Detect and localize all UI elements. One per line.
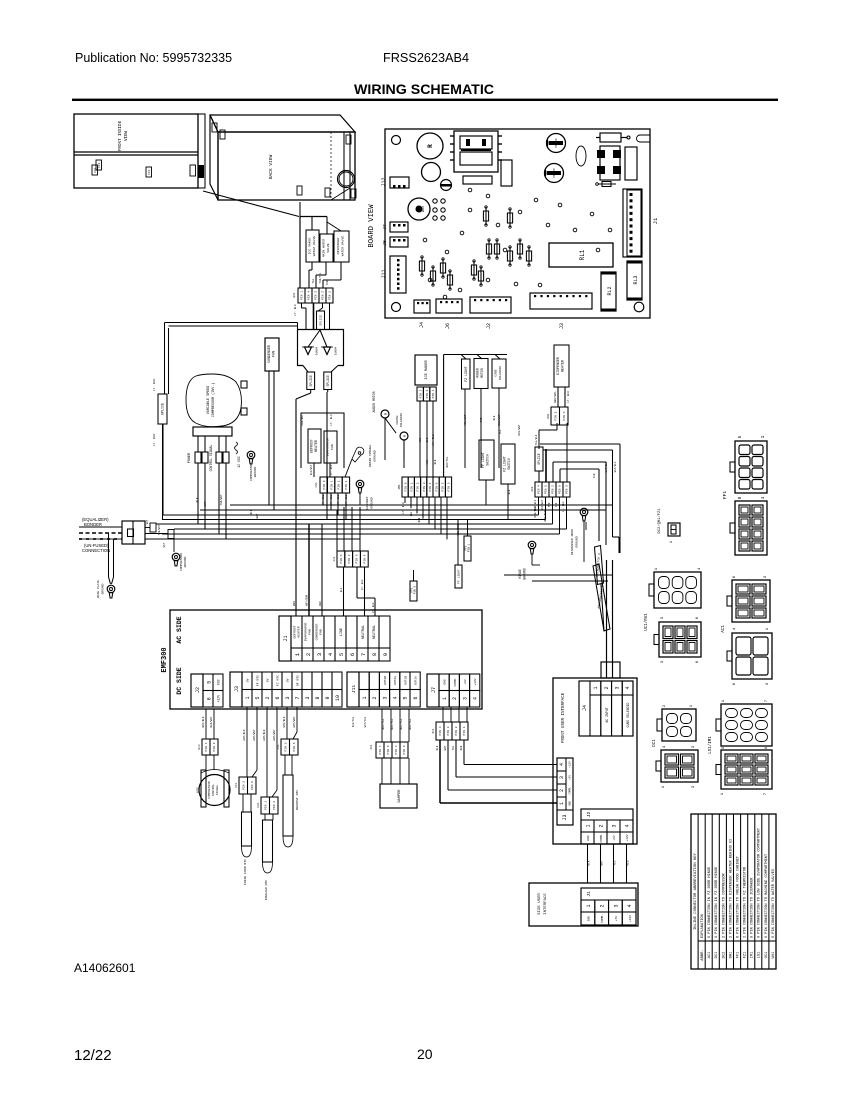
svg-text:BOARD VIEW: BOARD VIEW xyxy=(368,204,376,248)
svg-text:PIN 2: PIN 2 xyxy=(417,482,420,491)
svg-text:LS1: LS1 xyxy=(315,482,318,487)
svg-text:HEATER: HEATER xyxy=(296,626,300,637)
svg-text:FF LIGHT: FF LIGHT xyxy=(481,452,485,467)
svg-text:PIN 2: PIN 2 xyxy=(242,781,245,790)
svg-text:GROUND: GROUND xyxy=(254,466,257,477)
svg-text:PIN 6: PIN 6 xyxy=(387,745,390,754)
svg-text:BASE PLATE: BASE PLATE xyxy=(97,580,100,598)
svg-text:PIN 4: PIN 4 xyxy=(364,554,367,563)
svg-text:PIN 3: PIN 3 xyxy=(423,482,426,491)
svg-text:BLK/WHT: BLK/WHT xyxy=(209,716,213,727)
svg-text:MOTOR: MOTOR xyxy=(480,368,484,378)
svg-text:RED: RED xyxy=(319,601,322,606)
svg-text:FZ1: FZ1 xyxy=(257,802,260,807)
svg-text:3: 3 xyxy=(612,824,618,827)
svg-text:+12V: +12V xyxy=(626,834,629,841)
svg-text:YEL: YEL xyxy=(312,278,315,283)
svg-text:LT. BLU: LT. BLU xyxy=(153,379,156,392)
svg-text:SPLICE: SPLICE xyxy=(162,403,166,415)
svg-text:COMPRESSOR (INV.): COMPRESSOR (INV.) xyxy=(211,383,216,418)
svg-text:J3: J3 xyxy=(559,323,565,329)
svg-text:6: 6 xyxy=(349,653,356,656)
svg-text:12/22: 12/22 xyxy=(74,1047,112,1064)
svg-text:A14062601: A14062601 xyxy=(74,961,136,975)
svg-text:PIN 3: PIN 3 xyxy=(426,389,429,398)
svg-text:WHT: WHT xyxy=(256,513,259,518)
svg-text:WHT/YEL: WHT/YEL xyxy=(408,718,412,729)
svg-text:LT. BLU: LT. BLU xyxy=(402,502,405,513)
svg-text:CONDENSER: CONDENSER xyxy=(267,345,271,363)
svg-text:LT. BLU: LT. BLU xyxy=(361,579,364,590)
svg-text:6: 6 xyxy=(413,696,419,699)
svg-text:20: 20 xyxy=(417,1046,433,1062)
svg-text:R: R xyxy=(427,144,434,148)
svg-text:IM1: IM1 xyxy=(751,951,755,959)
svg-text:MAIN WATER: MAIN WATER xyxy=(322,239,326,258)
svg-text:2 PIN CONNECTION TO DISPENSER: 2 PIN CONNECTION TO DISPENSER HEATER BEH… xyxy=(729,839,733,938)
svg-text:3: 3 xyxy=(285,696,291,699)
svg-text:DC2: DC2 xyxy=(722,951,726,959)
svg-text:LT. BLU: LT. BLU xyxy=(562,501,565,512)
svg-text:SWITCH: SWITCH xyxy=(507,458,511,470)
svg-text:BLK: BLK xyxy=(508,489,511,494)
svg-text:DC2/QH1/FZ1: DC2/QH1/FZ1 xyxy=(657,508,662,534)
svg-text:10: 10 xyxy=(335,695,341,701)
svg-text:RED/YEL: RED/YEL xyxy=(352,716,355,727)
svg-text:1: 1 xyxy=(362,696,368,699)
svg-text:INTERFACE: INTERFACE xyxy=(544,893,548,915)
svg-text:+12V: +12V xyxy=(569,761,572,768)
svg-text:OUT2B: OUT2B xyxy=(384,676,387,685)
svg-text:RED/BLK: RED/BLK xyxy=(534,499,537,510)
svg-text:J3: J3 xyxy=(234,686,240,692)
svg-text:DC1: DC1 xyxy=(715,951,719,959)
svg-text:9 PIN CONNECTION TO LOW SIDE E: 9 PIN CONNECTION TO LOW SIDE EVAPORATOR … xyxy=(758,827,762,938)
svg-text:J11: J11 xyxy=(381,269,387,278)
svg-text:PIN 1: PIN 1 xyxy=(264,801,267,810)
svg-text:FF1: FF1 xyxy=(722,491,728,499)
svg-text:4: 4 xyxy=(627,904,633,907)
svg-text:FF1: FF1 xyxy=(736,951,740,959)
svg-text:BLK: BLK xyxy=(196,497,199,502)
svg-text:LINE: LINE xyxy=(340,628,344,636)
svg-text:LT. BLU: LT. BLU xyxy=(322,494,325,505)
svg-text:WHT/YEL: WHT/YEL xyxy=(364,716,367,727)
svg-text:GROUND: GROUND xyxy=(523,568,527,580)
svg-text:3: 3 xyxy=(305,696,311,699)
svg-text:LT. BLU: LT. BLU xyxy=(345,494,348,505)
svg-text:DC1: DC1 xyxy=(653,739,657,747)
svg-text:2 PIN CONNECTION TO FZ THERMIS: 2 PIN CONNECTION TO FZ THERMISTOR xyxy=(744,866,748,938)
svg-text:FREEZER NTC: FREEZER NTC xyxy=(264,880,268,901)
svg-text:PIN 2: PIN 2 xyxy=(213,742,216,751)
svg-text:NEUTRAL: NEUTRAL xyxy=(362,625,366,639)
svg-text:BONDER: BONDER xyxy=(84,522,102,527)
svg-text:J12: J12 xyxy=(381,177,387,186)
svg-text:FRONT USER INTERFACE: FRONT USER INTERFACE xyxy=(562,692,566,743)
svg-text:DISPENSER: DISPENSER xyxy=(556,357,560,375)
svg-text:ICE MAKER: ICE MAKER xyxy=(425,359,429,379)
svg-text:FF1: FF1 xyxy=(370,744,373,749)
svg-text:OUT1B: OUT1B xyxy=(404,676,407,685)
svg-text:HINGE: HINGE xyxy=(518,569,522,579)
svg-text:G: G xyxy=(385,413,389,415)
svg-text:DISPENSER DOOR: DISPENSER DOOR xyxy=(570,529,574,555)
svg-text:PIN 6: PIN 6 xyxy=(356,554,359,563)
svg-text:PIN 1: PIN 1 xyxy=(411,482,414,491)
svg-text:PIN 4: PIN 4 xyxy=(429,482,432,491)
svg-text:PIN 2: PIN 2 xyxy=(455,726,458,735)
svg-text:SIDE USER: SIDE USER xyxy=(538,893,542,915)
svg-text:BLK: BLK xyxy=(418,517,421,522)
svg-text:WHT/YEL: WHT/YEL xyxy=(399,718,403,729)
svg-text:GND: GND xyxy=(444,679,447,685)
svg-text:BLU/WHT: BLU/WHT xyxy=(497,414,501,425)
svg-text:YEL: YEL xyxy=(426,459,429,464)
svg-text:2: 2 xyxy=(600,904,606,907)
svg-text:8: 8 xyxy=(737,496,743,499)
svg-text:PIN 5: PIN 5 xyxy=(414,585,417,594)
svg-text:NEUTRAL: NEUTRAL xyxy=(554,391,557,403)
svg-text:YEL: YEL xyxy=(614,860,617,865)
svg-text:YEL/WHT: YEL/WHT xyxy=(463,414,467,425)
svg-text:GRY/WHT: GRY/WHT xyxy=(272,729,276,740)
svg-text:FZ1: FZ1 xyxy=(744,951,748,959)
svg-text:LT. BLU: LT. BLU xyxy=(294,304,297,315)
svg-text:YEL: YEL xyxy=(410,511,413,516)
svg-text:LS1: LS1 xyxy=(277,744,280,749)
svg-text:DH1: DH1 xyxy=(729,951,733,959)
svg-text:PIN 1: PIN 1 xyxy=(338,480,341,489)
svg-text:FF NTC: FF NTC xyxy=(256,675,260,686)
svg-text:RED/WHT: RED/WHT xyxy=(541,499,544,510)
svg-text:PIN 1: PIN 1 xyxy=(348,554,351,563)
svg-text:J2: J2 xyxy=(195,687,201,693)
svg-text:PIN 3: PIN 3 xyxy=(442,482,445,491)
svg-text:PIN 4: PIN 4 xyxy=(308,291,311,300)
svg-text:6 PIN CONNECTION TO MACHINE CO: 6 PIN CONNECTION TO MACHINE COMPARTMENT xyxy=(765,853,769,938)
svg-text:FZ LIGHT: FZ LIGHT xyxy=(503,456,507,471)
svg-text:6 PIN CONNECTION IN FZ DOOR HI: 6 PIN CONNECTION IN FZ DOOR HINGE xyxy=(708,867,712,938)
svg-text:3: 3 xyxy=(316,653,323,656)
svg-text:1: 1 xyxy=(586,904,592,907)
svg-text:5: 5 xyxy=(338,653,345,656)
svg-text:LT. BLU: LT. BLU xyxy=(153,434,156,447)
svg-text:PUR: PUR xyxy=(548,502,551,507)
svg-text:WATER VALVE: WATER VALVE xyxy=(312,236,316,257)
svg-text:J1: J1 xyxy=(283,635,289,641)
svg-text:5V: 5V xyxy=(266,679,270,683)
svg-text:J1: J1 xyxy=(652,217,659,224)
svg-text:WATER VALVE: WATER VALVE xyxy=(341,236,345,257)
svg-text:TAN/WHT: TAN/WHT xyxy=(219,494,223,505)
svg-text:VSC: VSC xyxy=(217,679,221,685)
svg-text:HEATER: HEATER xyxy=(314,440,318,452)
svg-text:3: 3 xyxy=(382,696,388,699)
svg-text:DC1: DC1 xyxy=(432,728,435,733)
svg-text:BLK: BLK xyxy=(493,415,496,420)
svg-text:TAN: TAN xyxy=(326,280,329,285)
svg-text:PIN 2: PIN 2 xyxy=(273,801,276,810)
svg-text:3: 3 xyxy=(559,776,565,779)
svg-text:COMPRESSOR: COMPRESSOR xyxy=(250,463,253,481)
svg-text:BLK: BLK xyxy=(340,587,343,592)
svg-text:PIN 1: PIN 1 xyxy=(432,389,435,398)
svg-text:COMM.: COMM. xyxy=(569,786,572,794)
svg-text:BLK: BLK xyxy=(426,437,429,442)
svg-text:VIEW: VIEW xyxy=(125,130,129,141)
svg-text:PIN 2: PIN 2 xyxy=(552,485,555,494)
svg-text:TAN: TAN xyxy=(593,473,596,478)
svg-text:LS1: LS1 xyxy=(758,951,762,959)
svg-text:WHT/YEL: WHT/YEL xyxy=(381,718,385,729)
svg-text:PIN 5: PIN 5 xyxy=(329,291,332,300)
svg-text:FRONT INSIDE: FRONT INSIDE xyxy=(119,120,123,151)
svg-text:3: 3 xyxy=(613,904,619,907)
svg-text:DC SIDE: DC SIDE xyxy=(176,667,183,694)
svg-text:PIN 9: PIN 9 xyxy=(404,482,407,491)
svg-text:SOLENOID: SOLENOID xyxy=(400,413,403,428)
svg-text:EVAPORATOR: EVAPORATOR xyxy=(326,438,330,457)
svg-text:J1: J1 xyxy=(586,891,592,897)
svg-text:PIN 4: PIN 4 xyxy=(439,726,442,735)
svg-text:POWER: POWER xyxy=(188,453,192,463)
svg-text:COMPRESSOR: COMPRESSOR xyxy=(180,553,183,571)
svg-text:OUT2A: OUT2A xyxy=(394,676,397,685)
svg-text:GROUND: GROUND xyxy=(373,450,377,461)
svg-text:J3: J3 xyxy=(562,814,568,820)
svg-text:COMPRESSOR: COMPRESSOR xyxy=(208,781,211,799)
svg-text:6: 6 xyxy=(275,696,281,699)
svg-text:CUBE SOLENOID: CUBE SOLENOID xyxy=(626,702,630,727)
svg-text:EXPLANATION: EXPLANATION xyxy=(701,914,705,938)
svg-text:IM1: IM1 xyxy=(398,484,401,490)
svg-text:BRN: BRN xyxy=(293,601,296,606)
svg-text:G: G xyxy=(404,435,408,437)
svg-text:5: 5 xyxy=(403,696,409,699)
svg-text:AC1: AC1 xyxy=(333,556,336,561)
svg-text:+5V: +5V xyxy=(615,916,618,922)
svg-text:FF1: FF1 xyxy=(148,169,151,175)
svg-text:LT. BLU: LT. BLU xyxy=(330,414,333,425)
svg-text:RED/WHT: RED/WHT xyxy=(310,464,313,475)
svg-text:WHT/BLK: WHT/BLK xyxy=(201,716,205,727)
svg-text:2: 2 xyxy=(452,697,458,700)
svg-text:FZ NTC: FZ NTC xyxy=(276,675,280,686)
svg-text:4: 4 xyxy=(473,697,479,700)
svg-text:AC1: AC1 xyxy=(708,951,712,959)
svg-text:WIRING SCHEMATIC: WIRING SCHEMATIC xyxy=(354,82,494,98)
svg-text:PIN 1: PIN 1 xyxy=(468,543,471,552)
svg-text:7: 7 xyxy=(295,696,301,699)
svg-text:CONTROL: CONTROL xyxy=(212,784,215,796)
svg-text:GROUND: GROUND xyxy=(184,556,187,567)
svg-text:+5V: +5V xyxy=(464,679,467,685)
svg-text:GND: GND xyxy=(587,835,590,841)
svg-text:BLK: BLK xyxy=(250,509,253,514)
svg-text:2 PIN CONNECTION TO COMPRESSOR: 2 PIN CONNECTION TO COMPRESSOR xyxy=(722,872,726,938)
svg-text:FF1: FF1 xyxy=(235,782,238,787)
svg-text:PIN 6: PIN 6 xyxy=(251,781,254,790)
svg-text:DRAIN TROUGH: DRAIN TROUGH xyxy=(368,445,372,467)
svg-text:RL1: RL1 xyxy=(579,249,586,260)
svg-text:AUGER: AUGER xyxy=(476,368,480,378)
svg-text:FZ LIGHT: FZ LIGHT xyxy=(464,366,468,381)
svg-text:J4: J4 xyxy=(582,705,588,711)
svg-text:3: 3 xyxy=(615,686,621,689)
svg-text:TAN/WHT: TAN/WHT xyxy=(158,524,161,535)
svg-text:PIN 3: PIN 3 xyxy=(315,291,318,300)
svg-text:PIN 6: PIN 6 xyxy=(559,485,562,494)
svg-text:PUR: PUR xyxy=(480,417,483,422)
svg-text:CUBE: CUBE xyxy=(495,369,498,376)
svg-text:WHT/BLK: WHT/BLK xyxy=(614,461,617,472)
svg-text:CRUSH: CRUSH xyxy=(396,415,399,424)
svg-text:WHT/YEL: WHT/YEL xyxy=(445,456,449,467)
svg-text:PIN 5: PIN 5 xyxy=(448,482,451,491)
svg-text:YEL: YEL xyxy=(499,429,502,434)
svg-text:8: 8 xyxy=(371,653,378,656)
svg-text:RL2: RL2 xyxy=(607,286,613,295)
svg-text:PIN 1: PIN 1 xyxy=(463,726,466,735)
svg-text:J7: J7 xyxy=(382,224,388,230)
svg-text:J7: J7 xyxy=(431,687,437,693)
svg-text:ABBR.: ABBR. xyxy=(701,949,705,960)
svg-text:2: 2 xyxy=(559,789,565,792)
svg-text:PIN 5: PIN 5 xyxy=(563,411,566,420)
svg-text:5: 5 xyxy=(255,696,261,699)
svg-text:EMF300: EMF300 xyxy=(161,647,169,672)
svg-text:FAN: FAN xyxy=(330,444,334,450)
svg-text:GRY/BLK: GRY/BLK xyxy=(282,716,286,727)
svg-text:FRSS2623AB4: FRSS2623AB4 xyxy=(383,51,469,65)
svg-text:PIN 1: PIN 1 xyxy=(301,291,304,300)
svg-text:WHT: WHT xyxy=(601,860,604,865)
svg-text:J6: J6 xyxy=(445,323,451,329)
svg-text:DEFROST NTC: DEFROST NTC xyxy=(295,790,299,811)
svg-text:6: 6 xyxy=(207,697,213,700)
svg-text:DEFROST: DEFROST xyxy=(310,439,314,453)
svg-text:PIN 2: PIN 2 xyxy=(322,291,325,300)
svg-text:J2: J2 xyxy=(586,812,592,818)
svg-text:RED: RED xyxy=(627,860,630,865)
svg-text:LT. BLU: LT. BLU xyxy=(567,391,570,403)
svg-text:WHT/YEL: WHT/YEL xyxy=(390,718,394,729)
svg-text:+12V: +12V xyxy=(629,915,632,922)
svg-text:1: 1 xyxy=(559,802,565,805)
svg-text:PIN 4: PIN 4 xyxy=(345,480,348,489)
svg-text:+12V: +12V xyxy=(217,695,221,703)
svg-text:8 PIN CONNECTION TO FRESH FOOD: 8 PIN CONNECTION TO FRESH FOOD CABINET xyxy=(736,855,740,938)
svg-text:OUT1A: OUT1A xyxy=(415,676,418,685)
svg-text:PIN 5: PIN 5 xyxy=(545,485,548,494)
svg-text:LS1/IM1: LS1/IM1 xyxy=(708,736,713,754)
svg-text:RED: RED xyxy=(460,745,463,750)
svg-text:YEL: YEL xyxy=(419,437,422,442)
svg-text:GROUND: GROUND xyxy=(575,536,579,547)
svg-text:7: 7 xyxy=(360,653,367,656)
svg-text:GND: GND xyxy=(588,916,591,922)
svg-text:YEL: YEL xyxy=(452,745,455,750)
svg-text:SPLICE: SPLICE xyxy=(537,453,541,465)
svg-text:YEL/GRN: YEL/GRN xyxy=(456,524,460,535)
svg-text:BLK: BLK xyxy=(588,860,591,865)
svg-text:5: 5 xyxy=(737,435,743,438)
svg-text:COMM.: COMM. xyxy=(454,677,457,686)
svg-text:4: 4 xyxy=(625,824,631,827)
svg-text:LT. BLU: LT. BLU xyxy=(432,434,435,445)
svg-text:9: 9 xyxy=(382,653,389,656)
svg-text:GND: GND xyxy=(569,801,572,806)
svg-text:2: 2 xyxy=(604,686,610,689)
svg-text:J8: J8 xyxy=(382,240,388,246)
svg-text:SPLICE: SPLICE xyxy=(320,315,323,326)
svg-text:UC1: UC1 xyxy=(765,951,769,959)
svg-text:WHT: WHT xyxy=(146,519,149,524)
svg-text:BLK: BLK xyxy=(434,459,437,464)
svg-text:BLK: BLK xyxy=(436,745,439,750)
svg-text:2: 2 xyxy=(265,696,271,699)
svg-text:9: 9 xyxy=(325,696,331,699)
svg-text:8: 8 xyxy=(315,696,321,699)
svg-text:HEATER: HEATER xyxy=(561,360,565,372)
svg-text:COMM.: COMM. xyxy=(600,833,603,842)
svg-text:SPLICE: SPLICE xyxy=(309,375,313,387)
svg-text:J11: J11 xyxy=(351,685,357,694)
svg-text:D1N04: D1N04 xyxy=(316,346,319,355)
svg-text:FAN: FAN xyxy=(272,351,276,357)
svg-text:FRESH FOOD NTC: FRESH FOOD NTC xyxy=(243,859,247,885)
svg-text:PIN 4: PIN 4 xyxy=(395,745,398,754)
svg-text:PIN 6: PIN 6 xyxy=(293,742,296,751)
svg-text:4: 4 xyxy=(625,686,631,689)
svg-text:PIN 7: PIN 7 xyxy=(379,745,382,754)
svg-text:FF1: FF1 xyxy=(98,162,101,168)
svg-text:AC1: AC1 xyxy=(531,486,534,491)
svg-text:1: 1 xyxy=(586,824,592,827)
svg-text:PIN 5: PIN 5 xyxy=(284,742,287,751)
svg-text:WHT/BRN: WHT/BRN xyxy=(305,594,309,606)
svg-text:PIN 3: PIN 3 xyxy=(566,485,569,494)
svg-text:CONTROL SIGNAL: CONTROL SIGNAL xyxy=(209,445,213,472)
svg-text:4: 4 xyxy=(760,496,766,499)
svg-text:PIN 2: PIN 2 xyxy=(323,480,326,489)
svg-text:GROUND: GROUND xyxy=(370,497,374,508)
svg-text:VSC: VSC xyxy=(196,787,200,793)
svg-text:5V: 5V xyxy=(286,679,290,683)
svg-text:Publication No: 5995732335: Publication No: 5995732335 xyxy=(75,51,232,65)
svg-text:DH1: DH1 xyxy=(547,413,550,418)
svg-text:J2: J2 xyxy=(486,323,492,329)
svg-text:NEUTRAL: NEUTRAL xyxy=(373,625,377,639)
svg-text:WHT: WHT xyxy=(444,745,447,750)
svg-text:WHT: WHT xyxy=(204,501,207,506)
svg-text:SIGNAL: SIGNAL xyxy=(216,785,219,796)
svg-text:WV1: WV1 xyxy=(293,292,296,297)
svg-text:4 PIN CONNECTION IN FZ DOOR HI: 4 PIN CONNECTION IN FZ DOOR HINGE xyxy=(715,867,719,938)
svg-text:+5V: +5V xyxy=(569,775,572,780)
svg-text:DAMPER: DAMPER xyxy=(398,789,402,803)
svg-text:SPLICE: SPLICE xyxy=(326,375,330,387)
svg-text:DC2: DC2 xyxy=(198,744,201,749)
svg-text:AC INPUT: AC INPUT xyxy=(605,707,609,722)
svg-text:2: 2 xyxy=(599,824,605,827)
svg-text:YEL/BLN: YEL/BLN xyxy=(535,434,538,445)
svg-text:VARIABLE SPEED: VARIABLE SPEED xyxy=(207,386,211,415)
svg-text:CONNECTION: CONNECTION xyxy=(82,548,110,553)
svg-text:PIN 1: PIN 1 xyxy=(205,742,208,751)
svg-text:4: 4 xyxy=(559,763,565,766)
